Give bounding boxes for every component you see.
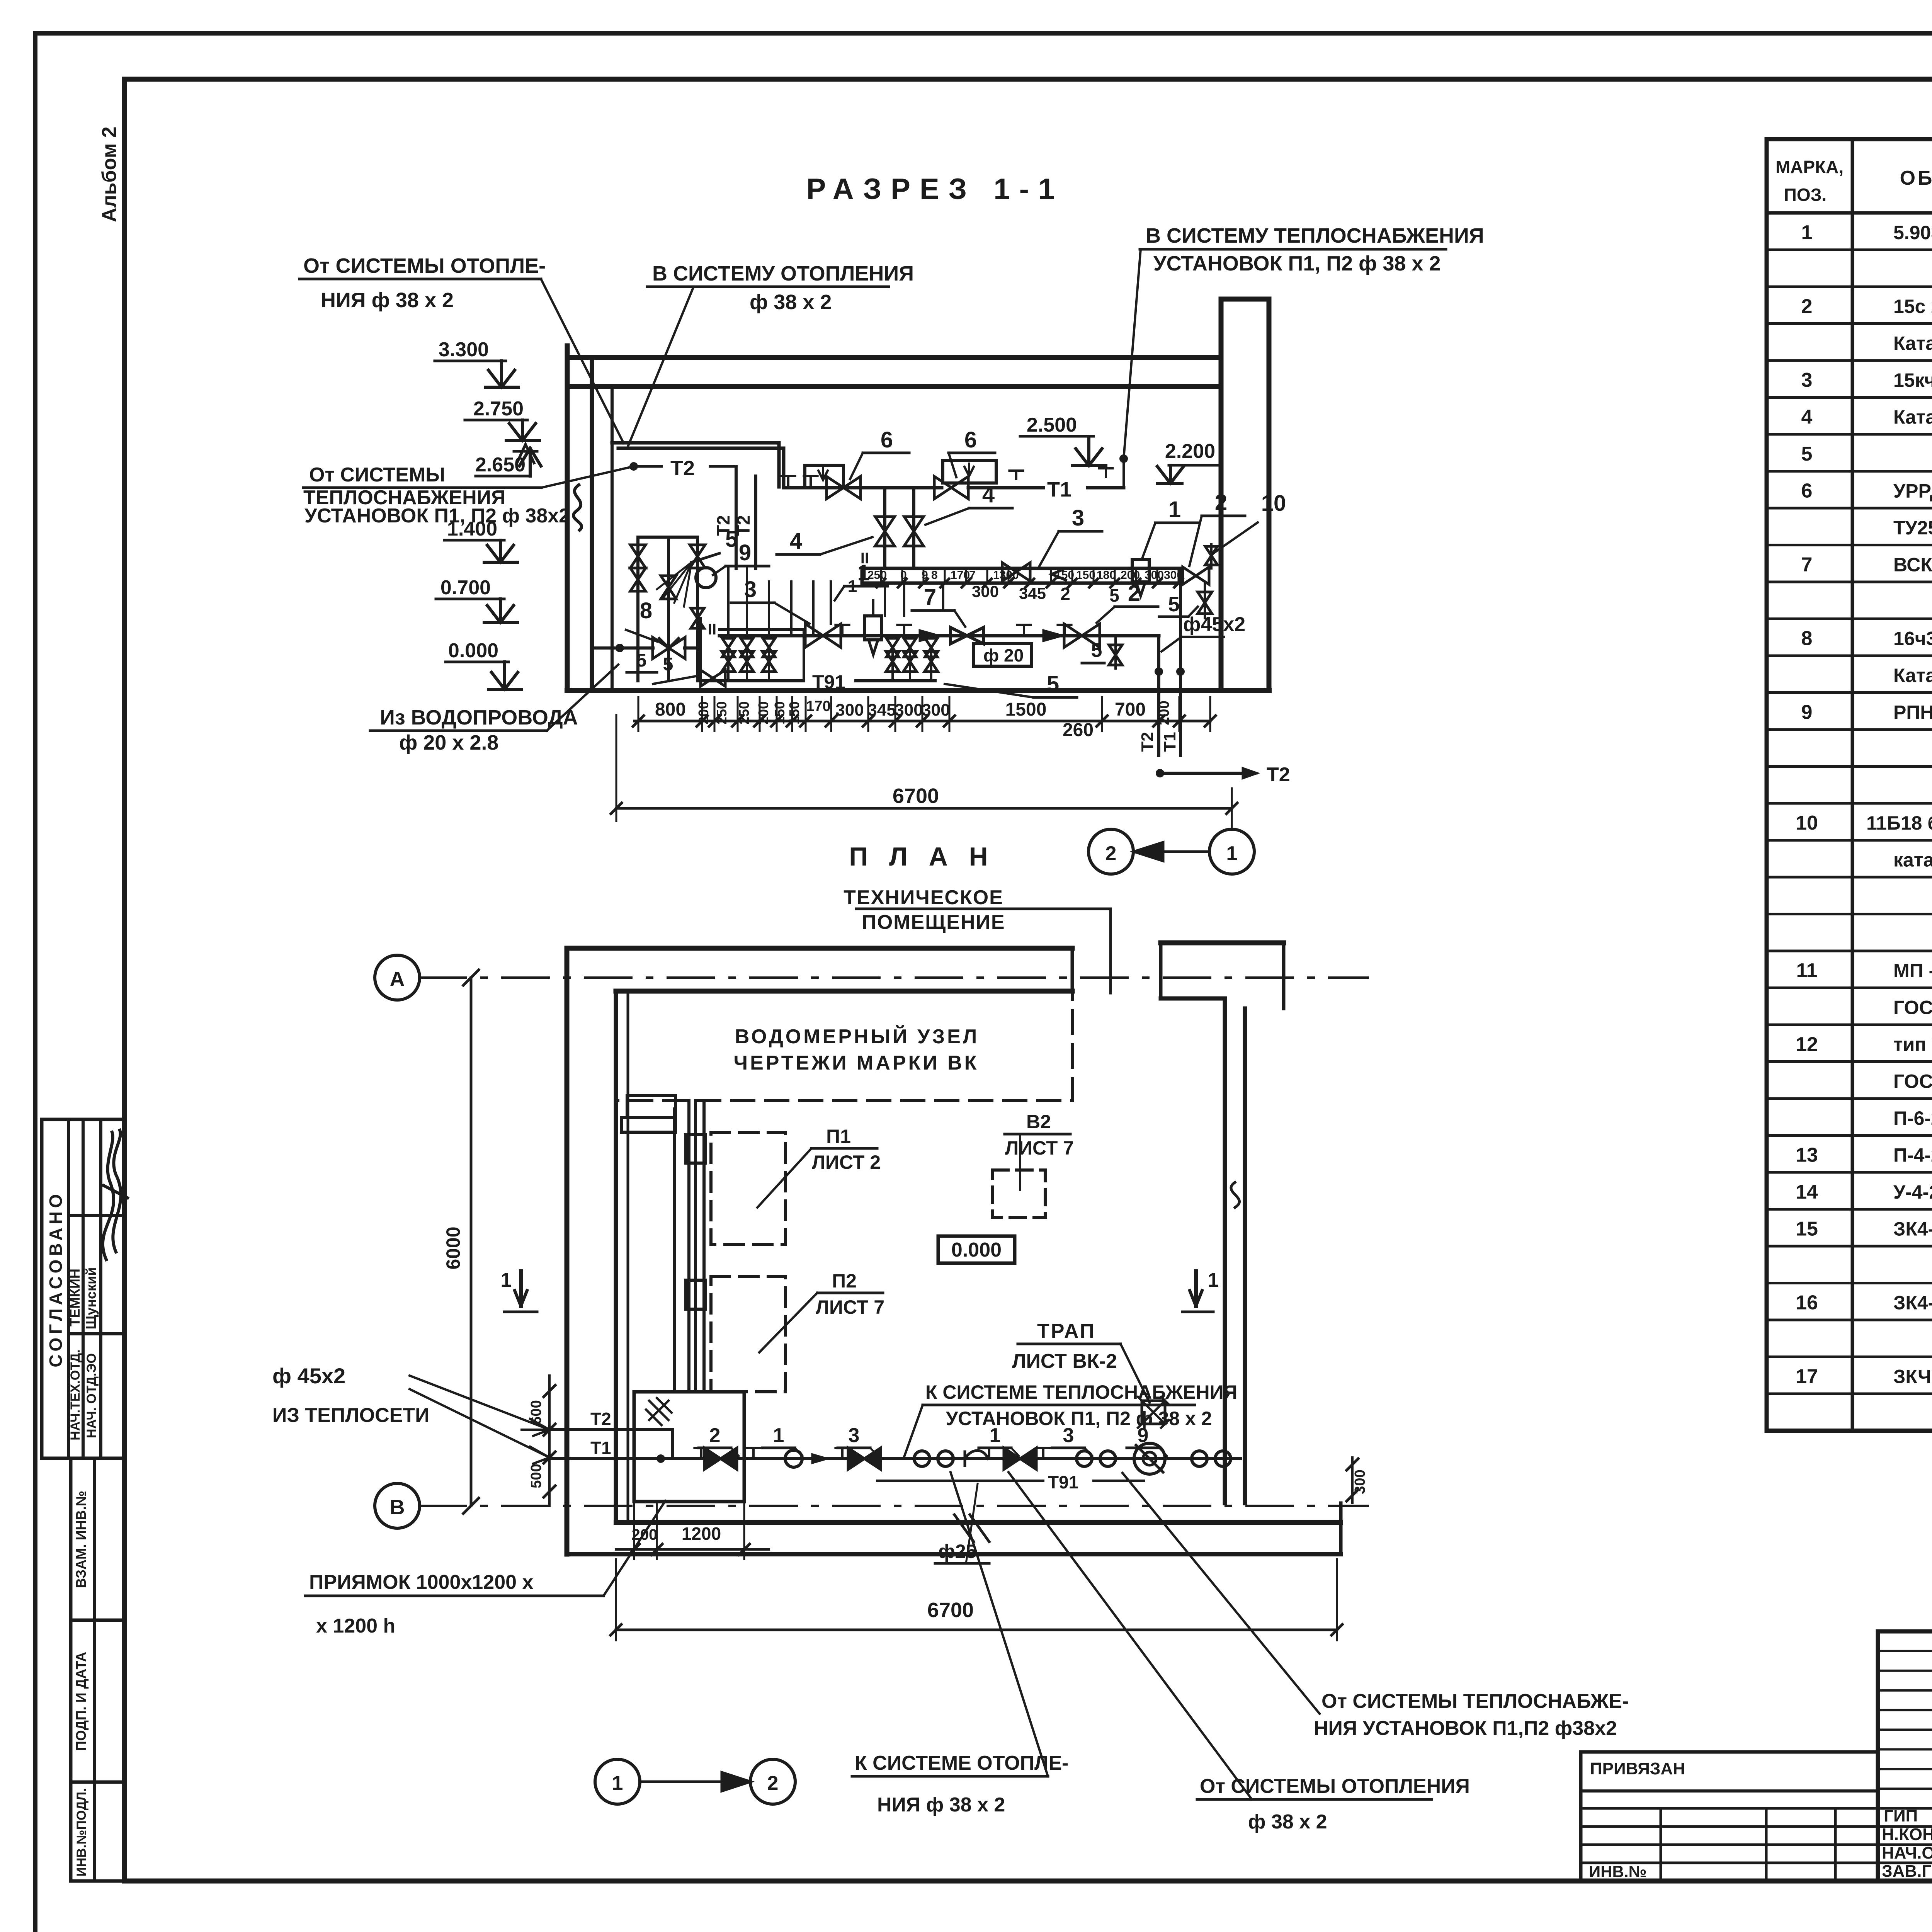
svg-text:II: II <box>708 621 716 638</box>
svg-text:Т2: Т2 <box>590 1409 611 1429</box>
svg-text:0.000: 0.000 <box>448 639 498 662</box>
plan bottom wall <box>616 1520 1341 1525</box>
vertical risers from lower pipe <box>727 568 730 636</box>
plan walls <box>567 946 1072 951</box>
svg-text:ТУ25-0.2160141-81: ТУ25-0.2160141-81 <box>1893 517 1932 539</box>
svg-text:ПРИВЯЗАН: ПРИВЯЗАН <box>1590 1759 1685 1778</box>
run to T1 <box>968 486 1043 490</box>
svg-text:800: 800 <box>655 699 686 720</box>
plan cut circles 1-2 <box>595 1759 640 1804</box>
0.000 level box <box>938 1236 1015 1263</box>
pit hatch <box>646 1398 672 1425</box>
collector manifold <box>862 568 1181 583</box>
svg-text:1200: 1200 <box>682 1524 721 1544</box>
svg-text:ф45х2: ф45х2 <box>1183 613 1245 636</box>
svg-text:2: 2 <box>709 1424 721 1447</box>
lower pipe <box>719 634 1159 638</box>
gauge item 9 <box>696 568 716 588</box>
svg-text:5: 5 <box>1091 639 1102 662</box>
svg-text:8: 8 <box>640 598 652 623</box>
water meter dashed box <box>616 991 1072 1100</box>
vzam inv block <box>71 1458 124 1620</box>
svg-text:0.000: 0.000 <box>951 1239 1002 1261</box>
svg-text:6000: 6000 <box>442 1226 464 1269</box>
svg-text:Т1: Т1 <box>1047 478 1071 501</box>
f20 box label <box>974 644 1032 666</box>
collector flow arrow <box>1052 568 1066 580</box>
svg-text:5: 5 <box>663 654 673 675</box>
svg-text:Из ВОДОПРОВОДА: Из ВОДОПРОВОДА <box>380 706 578 729</box>
svg-text:300: 300 <box>895 701 923 719</box>
svg-text:10: 10 <box>1261 491 1286 516</box>
section left wall <box>565 346 570 690</box>
title block small grid <box>1878 1650 1932 1652</box>
svg-text:УСТАНОВОК П1, П2 ф 38 х 2: УСТАНОВОК П1, П2 ф 38 х 2 <box>946 1408 1212 1429</box>
svg-text:Т1: Т1 <box>1160 732 1179 752</box>
svg-text:МАРКА,: МАРКА, <box>1776 157 1844 177</box>
svg-text:В СИСТЕМУ ОТОПЛЕНИЯ: В СИСТЕМУ ОТОПЛЕНИЯ <box>652 262 914 285</box>
svg-text:300: 300 <box>972 582 999 600</box>
vents plan pipe <box>694 1448 708 1456</box>
svg-text:3.300: 3.300 <box>439 338 489 361</box>
svg-text:4: 4 <box>790 529 802 554</box>
svg-text:3: 3 <box>1072 505 1084 531</box>
P2 dashed box <box>711 1277 786 1392</box>
svg-text:ф 20 х 2.8: ф 20 х 2.8 <box>399 731 498 754</box>
bypass regulator 6a <box>805 465 844 488</box>
svg-text:6: 6 <box>1801 480 1813 502</box>
drain valves triple right <box>886 651 899 672</box>
svg-text:2: 2 <box>1060 584 1070 604</box>
svg-text:Т91: Т91 <box>1048 1472 1078 1492</box>
drain valves triple left <box>722 651 735 672</box>
svg-text:250: 250 <box>714 701 730 724</box>
svg-text:6: 6 <box>881 427 893 452</box>
svg-text:4: 4 <box>1801 406 1813 429</box>
section right column <box>1219 299 1224 690</box>
svg-text:НАЧ.ОТД.: НАЧ.ОТД. <box>1882 1844 1932 1862</box>
svg-text:ИЗ ТЕПЛОСЕТИ: ИЗ ТЕПЛОСЕТИ <box>272 1404 430 1427</box>
svg-text:1: 1 <box>1168 497 1181 522</box>
svg-text:2: 2 <box>1215 490 1227 515</box>
svg-text:ПОДП. И ДАТА: ПОДП. И ДАТА <box>73 1652 89 1751</box>
svg-text:ф 20: ф 20 <box>983 645 1024 665</box>
valve 5 below collector right <box>1198 592 1212 614</box>
T91 drain line <box>701 679 804 682</box>
svg-text:6: 6 <box>964 427 977 452</box>
dim 200 1200 <box>633 1502 635 1559</box>
return header line II <box>719 628 804 631</box>
svg-text:ЗАВ.ГР.: ЗАВ.ГР. <box>1882 1862 1932 1881</box>
right wall break <box>1231 1182 1240 1207</box>
svg-text:2.750: 2.750 <box>473 398 524 420</box>
svg-text:ГИП: ГИП <box>1884 1806 1918 1825</box>
right small dim 300 <box>1351 1458 1354 1503</box>
axis B <box>375 1483 420 1528</box>
svg-text:УСТАНОВОК П1, П2 ф 38х2: УСТАНОВОК П1, П2 ф 38х2 <box>304 505 570 527</box>
svg-text:200: 200 <box>1156 701 1172 725</box>
bypass regulator 6b <box>943 461 996 483</box>
section cut circles 2-1 <box>1088 829 1133 874</box>
svg-text:345: 345 <box>867 701 896 719</box>
V2 dashed box <box>993 1170 1045 1218</box>
svg-text:НАЧ. ОТД.ЭО: НАЧ. ОТД.ЭО <box>84 1353 99 1438</box>
svg-text:0.700: 0.700 <box>440 577 491 599</box>
svg-text:500: 500 <box>528 1464 544 1488</box>
svg-text:П2: П2 <box>832 1270 857 1292</box>
wall break squiggle <box>573 485 582 530</box>
svg-text:2.200: 2.200 <box>1165 440 1215 463</box>
svg-text:ТЕМКИН: ТЕМКИН <box>67 1269 83 1327</box>
section dimension chain <box>634 720 1210 723</box>
svg-text:От СИСТЕМЫ ТЕПЛОСНАБЖЕ-: От СИСТЕМЫ ТЕПЛОСНАБЖЕ- <box>1321 1690 1629 1713</box>
svg-text:К СИСТЕМЕ ТЕПЛОСНАБЖЕНИЯ: К СИСТЕМЕ ТЕПЛОСНАБЖЕНИЯ <box>925 1381 1237 1403</box>
risers T2 vertical pair <box>735 466 738 568</box>
svg-text:2: 2 <box>1128 581 1140 606</box>
second row drain valves <box>722 638 735 657</box>
risers mid connect <box>812 582 815 636</box>
svg-text:Каталог ЦКБА: Каталог ЦКБА <box>1893 665 1932 686</box>
svg-text:2.650: 2.650 <box>475 454 526 476</box>
dirt trap item 1 <box>865 616 882 640</box>
trap symbol <box>1142 1401 1165 1424</box>
svg-text:600: 600 <box>528 1400 544 1424</box>
svg-text:16ч3бр: 16ч3бр <box>1893 628 1932 650</box>
svg-text:ф 38 х 2: ф 38 х 2 <box>1248 1811 1327 1833</box>
svg-text:11Б18 бк(по типу 14М1): 11Б18 бк(по типу 14М1) <box>1866 812 1932 834</box>
svg-text:5: 5 <box>725 527 738 552</box>
svg-text:ЧЕРТЕЖИ МАРКИ ВК: ЧЕРТЕЖИ МАРКИ ВК <box>734 1052 979 1074</box>
svg-text:УСТАНОВОК П1, П2 ф 38 х 2: УСТАНОВОК П1, П2 ф 38 х 2 <box>1153 252 1441 275</box>
section ceiling slab <box>567 355 1221 360</box>
vent marks on upper run <box>781 476 795 485</box>
svg-text:тип ТТ: тип ТТ <box>1893 1034 1932 1055</box>
svg-text:ИНВ.№: ИНВ.№ <box>1589 1862 1646 1881</box>
entry pipes T2 T1 <box>549 1428 672 1431</box>
svg-text:Каталог ЦКБА: Каталог ЦКБА <box>1893 406 1932 428</box>
svg-text:Щунский: Щунский <box>83 1267 99 1330</box>
svg-text:1: 1 <box>1226 842 1238 865</box>
svg-text:11: 11 <box>1796 959 1818 982</box>
svg-text:300: 300 <box>835 701 864 719</box>
svg-text:150: 150 <box>1076 569 1095 582</box>
svg-text:10: 10 <box>1796 812 1818 834</box>
valve 5 right low <box>1114 636 1117 668</box>
svg-text:1: 1 <box>857 560 870 585</box>
svg-text:Н.КОНТР.: Н.КОНТР. <box>1882 1825 1932 1844</box>
svg-text:ф 38 х 2: ф 38 х 2 <box>750 291 832 314</box>
svg-text:ВЗАМ. ИНВ.№: ВЗАМ. ИНВ.№ <box>73 1491 89 1588</box>
section 6700 dimension <box>616 807 1232 810</box>
svg-text:13: 13 <box>1796 1144 1818 1167</box>
svg-text:1: 1 <box>1801 221 1813 244</box>
specification table grid <box>1767 139 1932 1431</box>
small valve 10 on collector top <box>1205 546 1218 565</box>
svg-text:15кч 19п2: 15кч 19п2 <box>1893 369 1932 391</box>
svg-text:ВОДОМЕРНЫЙ УЗЕЛ: ВОДОМЕРНЫЙ УЗЕЛ <box>735 1025 980 1048</box>
svg-text:2: 2 <box>1105 842 1117 865</box>
svg-text:В СИСТЕМУ ТЕПЛОСНАБЖЕНИЯ: В СИСТЕМУ ТЕПЛОСНАБЖЕНИЯ <box>1146 224 1484 247</box>
svg-text:ГОСТ 2823-73*Е: ГОСТ 2823-73*Е <box>1893 1071 1932 1092</box>
valve 3 lower <box>805 624 841 648</box>
svg-text:СОГЛАСОВАНО: СОГЛАСОВАНО <box>46 1190 66 1367</box>
svg-text:1: 1 <box>612 1772 623 1794</box>
svg-text:ф 45х2: ф 45х2 <box>272 1364 345 1388</box>
svg-text:НАЧ.ТЕХ.ОТД.: НАЧ.ТЕХ.ОТД. <box>68 1349 83 1440</box>
svg-text:4: 4 <box>982 482 995 507</box>
P1 dashed box <box>711 1133 786 1245</box>
svg-text:МП - 3У: МП - 3У <box>1893 960 1932 981</box>
risers to collector with valves 4 <box>883 488 886 568</box>
svg-text:9: 9 <box>1801 701 1813 724</box>
svg-text:200: 200 <box>1121 569 1140 582</box>
privyazan block <box>1581 1752 1878 1881</box>
flow arrows <box>920 630 939 641</box>
supply pipe T2 double from wall <box>612 441 779 445</box>
svg-text:Т91: Т91 <box>812 671 845 693</box>
svg-text:ТРАП: ТРАП <box>1037 1320 1096 1342</box>
svg-text:9 8: 9 8 <box>922 569 938 582</box>
svg-text:ЗК4- 46-76: ЗК4- 46-76 <box>1893 1218 1932 1240</box>
svg-text:200: 200 <box>632 1526 658 1543</box>
svg-text:ЗК4- 2- 87: ЗК4- 2- 87 <box>1893 1292 1932 1314</box>
svg-text:От СИСТЕМЫ ОТОПЛЕ-: От СИСТЕМЫ ОТОПЛЕ- <box>303 254 546 277</box>
svg-text:В: В <box>390 1496 405 1519</box>
svg-text:7: 7 <box>924 585 936 610</box>
svg-text:150: 150 <box>786 701 802 724</box>
svg-text:5: 5 <box>1047 672 1059 697</box>
svg-text:6700: 6700 <box>893 784 939 808</box>
svg-text:ЛИСТ 2: ЛИСТ 2 <box>812 1151 881 1173</box>
svg-text:12: 12 <box>1796 1033 1818 1056</box>
svg-text:УРРД - М: УРРД - М <box>1893 480 1932 502</box>
svg-text:16: 16 <box>1796 1292 1818 1314</box>
svg-text:А: А <box>390 968 405 991</box>
svg-text:260: 260 <box>1063 720 1094 740</box>
svg-text:9: 9 <box>739 540 751 565</box>
svg-text:ЗКЧ- 3- 87: ЗКЧ- 3- 87 <box>1893 1366 1932 1388</box>
upper run to valve 6a <box>784 486 942 490</box>
svg-text:ОБОЗНАЧЕНИЕ: ОБОЗНАЧЕНИЕ <box>1900 167 1932 189</box>
svg-text:3: 3 <box>1801 369 1813 391</box>
svg-text:ПОЗ.: ПОЗ. <box>1784 185 1827 205</box>
svg-text:Т2: Т2 <box>1267 764 1290 786</box>
vents on lower pipe <box>835 625 849 633</box>
plan right wall top segment <box>1161 940 1284 946</box>
svg-text:180: 180 <box>1097 569 1116 582</box>
svg-text:От СИСТЕМЫ: От СИСТЕМЫ <box>309 464 445 486</box>
svg-text:170: 170 <box>806 698 830 714</box>
filter on collector <box>1132 560 1149 582</box>
left small dims 600 500 <box>548 1376 551 1506</box>
svg-text:ГОСТ 2405-88: ГОСТ 2405-88 <box>1893 997 1932 1019</box>
svg-text:9: 9 <box>1138 1424 1149 1447</box>
approval signatures <box>103 1132 114 1260</box>
plan pipe fittings <box>704 1448 737 1469</box>
svg-text:6700: 6700 <box>927 1599 974 1622</box>
svg-text:345: 345 <box>1019 584 1046 602</box>
svg-text:5: 5 <box>1109 585 1119 605</box>
small drain valve bottom <box>701 670 725 686</box>
svg-text:1: 1 <box>773 1424 784 1447</box>
section floor <box>567 688 1269 693</box>
check valve 8 and entry <box>617 645 623 651</box>
svg-text:3: 3 <box>1063 1424 1074 1447</box>
svg-text:15с 22 нж: 15с 22 нж <box>1893 296 1932 317</box>
svg-text:1500: 1500 <box>1005 699 1047 720</box>
svg-text:ИНВ.№ПОДЛ.: ИНВ.№ПОДЛ. <box>74 1788 89 1877</box>
bottom wall break <box>954 1515 989 1542</box>
T91 small line <box>877 1480 1043 1482</box>
svg-text:2.500: 2.500 <box>1027 414 1077 436</box>
svg-text:У-4-240-104: У-4-240-104 <box>1893 1181 1932 1203</box>
svg-text:П-6-240-103: П-6-240-103 <box>1893 1107 1932 1129</box>
svg-text:7: 7 <box>1801 554 1813 576</box>
svg-text:НИЯ УСТАНОВОК П1,П2 ф38х2: НИЯ УСТАНОВОК П1,П2 ф38х2 <box>1314 1717 1617 1740</box>
svg-text:14: 14 <box>1796 1181 1818 1203</box>
T2 branch label <box>631 463 637 469</box>
svg-text:П1: П1 <box>826 1126 851 1147</box>
svg-text:5: 5 <box>1168 593 1180 616</box>
svg-text:2: 2 <box>1801 295 1813 318</box>
svg-text:НИЯ ф 38 х 2: НИЯ ф 38 х 2 <box>321 289 454 312</box>
svg-text:ЛИСТ 7: ЛИСТ 7 <box>1005 1137 1074 1159</box>
valve 2 lower <box>1064 624 1100 648</box>
axis A <box>375 955 420 1000</box>
left equipment boxes <box>627 1095 675 1117</box>
section cut mark 1 left <box>519 1271 523 1306</box>
svg-text:ф25: ф25 <box>938 1541 976 1562</box>
svg-text:ВСКМ: ВСКМ <box>1893 554 1932 576</box>
risers along left wall <box>673 1109 676 1391</box>
svg-text:3: 3 <box>849 1424 860 1447</box>
svg-text:200: 200 <box>696 701 711 724</box>
vertical dim 6000 <box>470 978 473 1506</box>
inv n podl block <box>71 1782 124 1881</box>
pit (priyamok) <box>634 1392 744 1502</box>
svg-text:700: 700 <box>1115 699 1146 720</box>
svg-text:17: 17 <box>1796 1366 1818 1388</box>
svg-text:ПРИЯМОК 1000х1200 х: ПРИЯМОК 1000х1200 х <box>309 1571 533 1594</box>
svg-text:5: 5 <box>636 650 647 671</box>
left riser group <box>636 537 639 681</box>
svg-text:П-4-240-103: П-4-240-103 <box>1893 1145 1932 1166</box>
svg-text:К СИСТЕМЕ ОТОПЛЕ-: К СИСТЕМЕ ОТОПЛЕ- <box>855 1752 1069 1774</box>
svg-text:5: 5 <box>1801 443 1813 465</box>
svg-text:300: 300 <box>922 701 950 719</box>
svg-text:НИЯ ф 38 х 2: НИЯ ф 38 х 2 <box>877 1794 1005 1816</box>
svg-text:15: 15 <box>1796 1218 1818 1240</box>
svg-text:1: 1 <box>501 1269 512 1291</box>
svg-text:1: 1 <box>1208 1269 1219 1291</box>
svg-text:х 1200 h: х 1200 h <box>316 1615 395 1637</box>
svg-text:200: 200 <box>755 701 771 724</box>
svg-text:2: 2 <box>767 1772 779 1794</box>
svg-text:Т2: Т2 <box>1138 732 1157 752</box>
svg-text:8: 8 <box>1801 628 1813 650</box>
plan 6700 dim <box>616 1629 1337 1631</box>
svg-text:каталог ЦКБА: каталог ЦКБА <box>1893 849 1932 871</box>
chevron mark 2.650 level <box>514 444 537 463</box>
svg-text:1: 1 <box>990 1424 1001 1447</box>
svg-text:ПОМЕЩЕНИЕ: ПОМЕЩЕНИЕ <box>862 911 1005 934</box>
svg-text:Альбом 2: Альбом 2 <box>98 126 121 222</box>
right drop pipes through floor <box>1157 636 1160 755</box>
svg-text:ТЕХНИЧЕСКОЕ: ТЕХНИЧЕСКОЕ <box>844 886 1003 909</box>
svg-text:ЛИСТ ВК-2: ЛИСТ ВК-2 <box>1012 1350 1117 1372</box>
svg-text:5.903-13 вып. 5: 5.903-13 вып. 5 <box>1893 222 1932 243</box>
svg-text:РПН 1.3/30: РПН 1.3/30 <box>1893 702 1932 723</box>
svg-text:От СИСТЕМЫ ОТОПЛЕНИЯ: От СИСТЕМЫ ОТОПЛЕНИЯ <box>1200 1775 1470 1798</box>
svg-text:Т2: Т2 <box>670 457 695 480</box>
svg-text:250: 250 <box>736 701 752 724</box>
svg-text:РАЗРЕЗ 1-1: РАЗРЕЗ 1-1 <box>806 173 1064 206</box>
section cut mark 1 right <box>1194 1271 1198 1306</box>
svg-text:Каталог ЦКБА: Каталог ЦКБА <box>1893 333 1932 354</box>
svg-text:Т1: Т1 <box>590 1438 611 1458</box>
svg-text:150: 150 <box>772 701 787 724</box>
svg-text:П Л А Н: П Л А Н <box>849 842 995 871</box>
title block frame <box>1878 1631 1932 1881</box>
svg-text:В2: В2 <box>1026 1111 1051 1133</box>
svg-text:ЛИСТ 7: ЛИСТ 7 <box>816 1296 884 1318</box>
svg-text:300: 300 <box>1352 1469 1368 1494</box>
water meter item 7 <box>951 628 983 644</box>
approval stamp block <box>42 1119 124 1458</box>
podp i data block <box>71 1620 124 1782</box>
svg-text:170: 170 <box>951 569 970 582</box>
plan main pipe <box>661 1457 1240 1460</box>
